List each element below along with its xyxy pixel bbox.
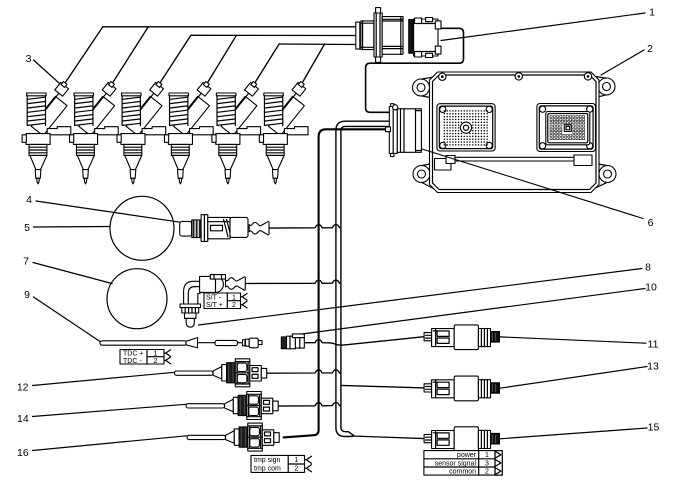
ST sensor pin table bbox=[204, 293, 247, 309]
svg-text:1: 1 bbox=[294, 457, 298, 464]
leader callout 14 bbox=[33, 404, 186, 416]
svg-text:8: 8 bbox=[645, 262, 651, 274]
injector 5 bbox=[212, 82, 261, 184]
ECM left connector socket J2 bbox=[437, 104, 495, 151]
temperature sensor (callout 16) bbox=[187, 423, 279, 451]
ECM right connector socket J3 bbox=[537, 104, 596, 152]
svg-text:2: 2 bbox=[485, 469, 489, 476]
wire injector harness line B bbox=[191, 34, 356, 36]
leader callout 11 bbox=[500, 337, 646, 343]
svg-text:11: 11 bbox=[648, 339, 659, 351]
wire trunk single lead to ECM connector pin bbox=[284, 129, 386, 437]
injector 6 bbox=[259, 82, 308, 184]
pressure sensor (callout 11) bbox=[424, 325, 499, 350]
ECM module body bbox=[430, 72, 600, 193]
harness connector J1 receptacle half bbox=[409, 18, 441, 58]
ECM mounting ear bottom left bbox=[413, 164, 434, 189]
leader callout 5 bbox=[34, 226, 111, 229]
wire from injector connector to ECM connector bbox=[366, 28, 464, 112]
svg-text:TDC +: TDC + bbox=[123, 351, 143, 358]
svg-text:5: 5 bbox=[24, 222, 30, 234]
leader callout 6 bbox=[422, 149, 643, 219]
svg-text:common: common bbox=[449, 469, 476, 476]
wire ST sensor to trunk bbox=[244, 280, 341, 283]
injector 3 bbox=[117, 82, 166, 184]
svg-text:2: 2 bbox=[232, 302, 236, 309]
svg-text:16: 16 bbox=[17, 447, 29, 459]
leader callout 12 bbox=[33, 372, 175, 385]
wire trunk bundle inner line bbox=[341, 126, 391, 435]
wire injector 3 lead bbox=[159, 35, 191, 85]
svg-text:1: 1 bbox=[485, 452, 489, 459]
wire injector 4 lead bbox=[206, 35, 236, 85]
camshaft circle for ST speed timing sensor bbox=[107, 269, 167, 329]
flywheel circle for speed timing sensor bbox=[110, 196, 174, 260]
temperature sensor (callout 12) bbox=[175, 359, 267, 387]
svg-text:3: 3 bbox=[26, 53, 32, 65]
svg-text:14: 14 bbox=[17, 413, 29, 425]
svg-text:10: 10 bbox=[645, 282, 657, 294]
ECM mounting ear top left bbox=[413, 77, 433, 98]
svg-text:13: 13 bbox=[647, 361, 659, 373]
harness connector J1 plug half bbox=[356, 8, 403, 63]
svg-text:sensor signal: sensor signal bbox=[435, 460, 477, 467]
svg-text:3: 3 bbox=[485, 460, 489, 467]
wire injector harness line C bbox=[279, 43, 356, 46]
ST right angle speed timing sensor bbox=[180, 275, 245, 328]
injector 2 bbox=[70, 82, 119, 184]
svg-text:TDC -: TDC - bbox=[123, 358, 142, 365]
leader callout 2 bbox=[601, 50, 644, 75]
svg-text:4: 4 bbox=[26, 194, 32, 206]
leader callout 10 bbox=[298, 289, 645, 335]
svg-text:1: 1 bbox=[649, 7, 655, 19]
svg-text:S/T -: S/T - bbox=[206, 294, 222, 301]
svg-text:power: power bbox=[457, 452, 477, 459]
svg-text:1: 1 bbox=[154, 351, 158, 358]
svg-text:15: 15 bbox=[648, 422, 660, 434]
leader callout 9 bbox=[34, 297, 101, 342]
TDC timing calibration probe bbox=[100, 338, 262, 348]
wire injector 5 lead bbox=[254, 44, 280, 85]
svg-text:tmp com: tmp com bbox=[254, 466, 281, 473]
ECM mounting ear bottom right bbox=[596, 164, 617, 189]
svg-text:1: 1 bbox=[232, 294, 236, 301]
wire injector harness line A bbox=[103, 26, 356, 28]
wire injector 1 lead bbox=[64, 27, 103, 85]
injector 4 bbox=[164, 82, 213, 184]
svg-text:9: 9 bbox=[24, 289, 30, 301]
svg-text:S/T +: S/T + bbox=[206, 302, 223, 309]
temperature sensor (callout 14) bbox=[186, 392, 278, 420]
leader callout 15 bbox=[500, 428, 647, 439]
ECM side connector J4 with harness bbox=[386, 104, 422, 157]
leader callout 13 bbox=[500, 367, 647, 389]
ECM mounting ear top right bbox=[596, 77, 615, 98]
pressure sensor (callout 15) bbox=[424, 427, 499, 452]
wire speed timing sensor to trunk bbox=[268, 225, 341, 229]
wire trunk to pressure sensor 3 bbox=[352, 436, 424, 439]
leader callout 7 bbox=[33, 263, 112, 284]
wire injector 2 lead bbox=[111, 27, 148, 85]
svg-text:2: 2 bbox=[647, 43, 653, 55]
svg-text:2: 2 bbox=[294, 466, 298, 473]
wire injector 6 lead bbox=[301, 44, 325, 85]
TDC pin table bbox=[120, 350, 171, 365]
leader callout 3 bbox=[34, 60, 64, 87]
leader callout 4 bbox=[36, 201, 181, 222]
ECM bottom rail bbox=[435, 155, 593, 170]
wire trunk bundle outer line bbox=[336, 121, 391, 436]
wire temp sensor 1 to trunk bbox=[259, 370, 341, 373]
pressure sensor pin table bbox=[424, 451, 502, 476]
svg-text:2: 2 bbox=[154, 358, 158, 365]
leader callout 8 bbox=[199, 269, 643, 326]
leader callout 1 bbox=[441, 13, 645, 41]
svg-text:tmp sign: tmp sign bbox=[254, 457, 281, 464]
pressure sensor (callout 13) bbox=[424, 376, 499, 401]
svg-text:12: 12 bbox=[17, 381, 29, 393]
injector 1 bbox=[22, 82, 71, 184]
leader callout 16 bbox=[33, 436, 187, 451]
svg-text:6: 6 bbox=[648, 217, 654, 229]
wire temp sensor 2 to trunk bbox=[276, 403, 341, 407]
speed timing sensor bbox=[180, 215, 269, 242]
wire TDC chain to pressure sensor 1 bbox=[304, 337, 424, 345]
svg-text:7: 7 bbox=[23, 256, 29, 268]
wire trunk to pressure sensor 2 bbox=[341, 385, 424, 388]
temperature sensor pin table bbox=[251, 455, 311, 472]
TDC inline connector bbox=[281, 334, 304, 349]
